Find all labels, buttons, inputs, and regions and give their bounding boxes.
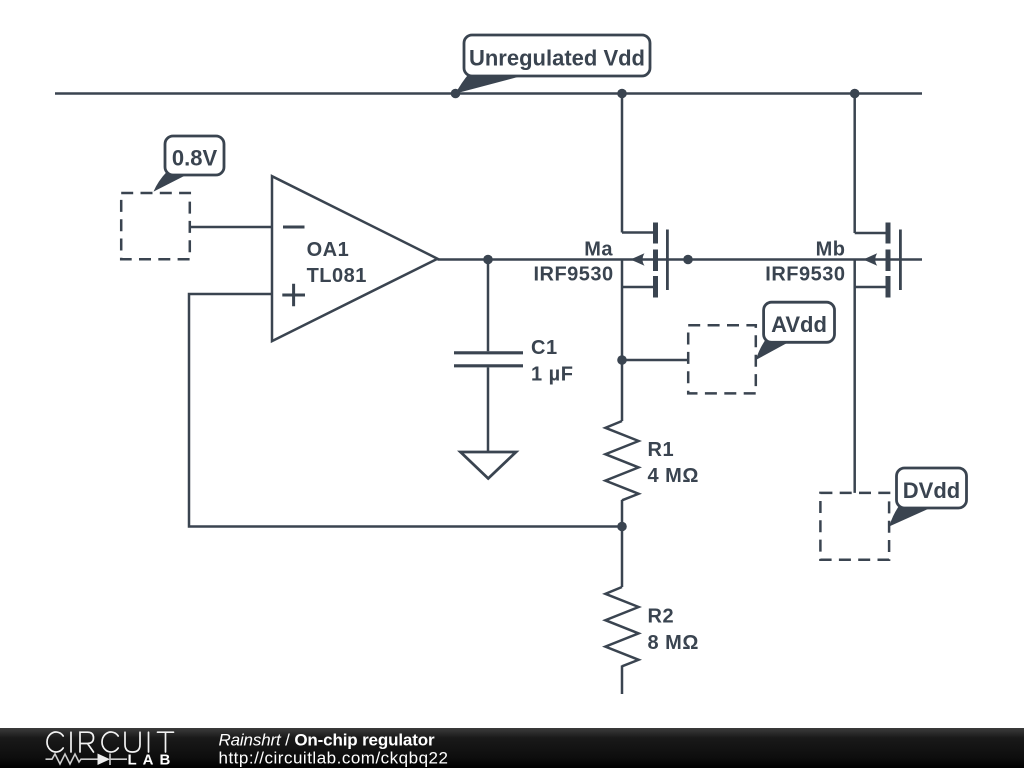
CircuitLab logo resistor-diode glyph — [46, 754, 128, 766]
node: junction at Vdd rail callout anchor — [451, 89, 461, 99]
resistor R1 — [605, 421, 638, 500]
svg-text:IRF9530: IRF9530 — [533, 264, 613, 286]
svg-text:0.8V: 0.8V — [172, 146, 218, 171]
svg-text:Mb: Mb — [816, 238, 846, 260]
node: junction Vdd rail to Mb source — [850, 89, 860, 99]
wire: Mb drain down to DVdd terminal box — [853, 260, 856, 493]
wire: feedback from divider tap to op-amp non-inverting input — [189, 294, 622, 527]
op-amp OA1 — [272, 176, 438, 341]
node: AVdd tap junction — [617, 355, 627, 365]
svg-text:4 MΩ: 4 MΩ — [648, 465, 699, 487]
wire: 0.8V source to op-amp inverting input — [190, 226, 272, 229]
transistor Mb IRF9530 — [855, 223, 902, 298]
svg-text:R2: R2 — [648, 606, 675, 628]
node: junction Vdd rail to Ma source — [617, 89, 627, 99]
wire: op-amp output to Mb gate rail — [438, 258, 923, 261]
transistor Ma IRF9530 — [622, 223, 669, 298]
svg-text:OA1: OA1 — [307, 239, 350, 261]
wire: Ma drain down to R1 — [621, 260, 624, 422]
wire: AVdd tap to AVdd terminal box — [622, 359, 688, 362]
CircuitLab logo wordmark CIRCUIT — [47, 732, 173, 752]
svg-text:1 µF: 1 µF — [531, 363, 573, 385]
svg-text:Unregulated Vdd: Unregulated Vdd — [469, 46, 645, 71]
node: op-amp output junction to C1 — [483, 255, 493, 265]
node: feedback divider tap junction — [617, 522, 627, 532]
callout label: DVdd — [889, 468, 966, 527]
net flag AVdd dashed terminal box — [688, 325, 756, 393]
svg-text:http://circuitlab.com/ckqbq22: http://circuitlab.com/ckqbq22 — [219, 749, 449, 768]
ground — [461, 452, 517, 479]
wire: Vdd rail down to Mb source stub — [853, 94, 856, 234]
resistor R2 — [605, 587, 638, 666]
wire: R2 bottom open end — [621, 666, 624, 695]
svg-text:AVdd: AVdd — [771, 312, 827, 337]
svg-text:TL081: TL081 — [307, 265, 367, 287]
footer bar — [0, 728, 1024, 768]
voltage source V1 0.8V dashed terminal box — [121, 193, 190, 259]
svg-text:IRF9530: IRF9530 — [765, 264, 845, 286]
capacitor C1 — [454, 260, 523, 452]
CircuitLab logo diode triangle — [98, 754, 111, 766]
callout label: Unregulated Vdd — [456, 35, 650, 94]
svg-text:LAB: LAB — [128, 751, 177, 768]
svg-text:8 MΩ: 8 MΩ — [648, 632, 699, 654]
wire: Unregulated Vdd top rail — [55, 92, 922, 95]
node: Ma gate junction — [683, 255, 693, 265]
wire: R1 bottom to R2 top — [621, 500, 624, 587]
callout label: 0.8V — [154, 136, 225, 192]
callout label: AVdd — [756, 302, 835, 360]
wire: Vdd rail down to Ma source stub — [621, 94, 624, 233]
svg-text:C1: C1 — [531, 337, 558, 359]
svg-text:DVdd: DVdd — [903, 478, 960, 503]
svg-text:Ma: Ma — [584, 238, 613, 260]
net flag DVdd dashed terminal box — [820, 493, 889, 560]
svg-text:R1: R1 — [648, 439, 675, 461]
svg-text:Rainshrt / On-chip regulator: Rainshrt / On-chip regulator — [219, 731, 435, 750]
